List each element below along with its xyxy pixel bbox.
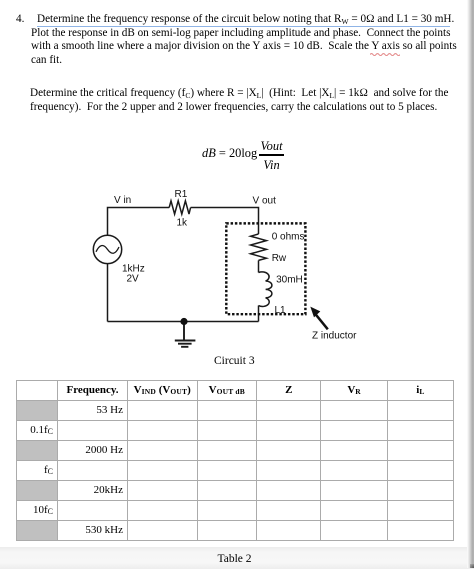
paragraph: critical frequency instructions [30,87,448,99]
svg-text:30mH: 30mH [276,275,303,286]
ground [175,322,196,347]
svg-text:V out: V out [253,196,277,207]
blue underline [37,26,450,28]
svg-text:Rw: Rw [272,253,287,264]
caption Circuit 3 [214,355,255,367]
wire: R1 to V out corner and down to Rw [191,208,259,235]
svg-text:0 ohms: 0 ohms [272,232,305,243]
svg-text:V in: V in [114,195,131,206]
bottom page-break band [0,547,474,569]
caption Table 2 [218,553,252,565]
resistor R1 [169,201,190,214]
impedance box (dashed) [226,223,305,314]
svg-text:R1: R1 [175,189,188,200]
wire: source bottom down [107,264,109,322]
paragraph: problem 4 text [16,13,24,25]
svg-text:1k: 1k [177,218,189,229]
AC source V1 [93,235,121,263]
svg-text:L1: L1 [275,305,287,316]
wire: Rw to L1 [258,260,260,272]
arrow to Z inductor [310,307,328,330]
right scrollbar strip [467,0,474,568]
svg-text:2V: 2V [127,274,140,285]
bottom-right dark corner [470,564,474,568]
resistor Rw [251,234,267,260]
red spell squiggle under "Y axis" [370,52,400,56]
formula dB = 20log(Vout/Vin) [202,146,257,161]
inductor L1 [259,272,272,307]
node: junction dot [180,318,187,325]
wire: bottom horizontal [108,321,259,323]
wire: left vertical + top horizontal to R1 [108,208,170,236]
wire: L1 to bottom [258,306,260,322]
TABLE 2 [16,380,454,541]
svg-text:Z inductor: Z inductor [312,331,357,342]
